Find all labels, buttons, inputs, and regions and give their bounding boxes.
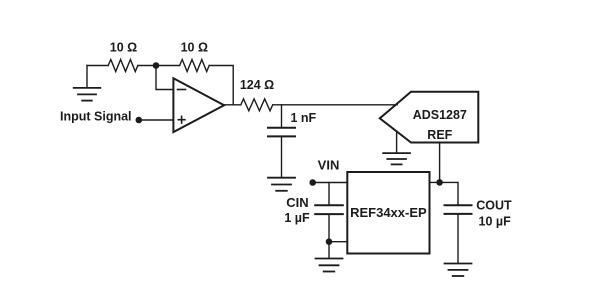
svg-text:REF: REF xyxy=(427,128,452,142)
svg-text:Input Signal: Input Signal xyxy=(60,109,132,123)
resistor R3 xyxy=(240,78,274,111)
svg-text:1 µF: 1 µF xyxy=(284,211,310,225)
wire: VIN rail xyxy=(316,182,348,184)
capacitor CIN 1uF xyxy=(284,183,342,225)
node REF/output junction dot xyxy=(436,179,443,186)
svg-text:10 Ω: 10 Ω xyxy=(181,41,208,55)
svg-text:ADS1287: ADS1287 xyxy=(413,108,467,122)
wire: between R1 and R2 xyxy=(138,65,180,67)
node Input Signal terminal xyxy=(60,109,142,123)
svg-text:10 µF: 10 µF xyxy=(479,214,512,228)
wire: REF pin down xyxy=(439,143,441,183)
svg-text:124 Ω: 124 Ω xyxy=(240,78,274,92)
node CIN/GND junction dot xyxy=(326,238,333,245)
wire: ADS1287 ground stub xyxy=(396,133,398,153)
wire: junction to box GND pin xyxy=(329,241,347,243)
capacitor COUT 10uF xyxy=(445,199,512,229)
wire: op-amp output to R3 xyxy=(224,104,241,106)
svg-text:VIN: VIN xyxy=(318,157,340,172)
resistor R2 xyxy=(180,41,210,72)
op-amp U1 xyxy=(173,78,224,132)
wire: top rail right segment and drop to output xyxy=(209,66,233,105)
ground G1 xyxy=(74,66,101,101)
ADS1287 block xyxy=(380,92,479,143)
resistor R1 xyxy=(108,41,138,72)
REF34xx-EP box U2 xyxy=(347,172,429,254)
wire: junction down to ground xyxy=(328,242,330,259)
svg-text:1 nF: 1 nF xyxy=(291,111,317,125)
node VIN terminal xyxy=(309,157,339,186)
wire: inverting input branch xyxy=(156,66,173,90)
ground G5 xyxy=(445,264,472,277)
svg-text:10 Ω: 10 Ω xyxy=(110,41,137,55)
wire: box output rail xyxy=(430,182,459,204)
ground G2 xyxy=(268,178,295,191)
capacitor C1 1nF xyxy=(268,105,317,137)
wire: CIN bottom to junction xyxy=(328,215,330,242)
wire: C1 to ground xyxy=(281,137,283,178)
wire: non-inverting input xyxy=(142,119,174,121)
ground G4 xyxy=(316,259,343,272)
wire: R3 to ADS1287 input xyxy=(273,104,397,106)
node A junction dot xyxy=(153,62,160,69)
ground G3 xyxy=(383,153,410,164)
svg-text:REF34xx-EP: REF34xx-EP xyxy=(350,205,427,220)
svg-text:COUT: COUT xyxy=(476,199,512,213)
svg-text:CIN: CIN xyxy=(286,195,308,210)
wire: COUT to ground xyxy=(457,214,459,263)
wire: top feedback rail left segment xyxy=(87,65,108,67)
